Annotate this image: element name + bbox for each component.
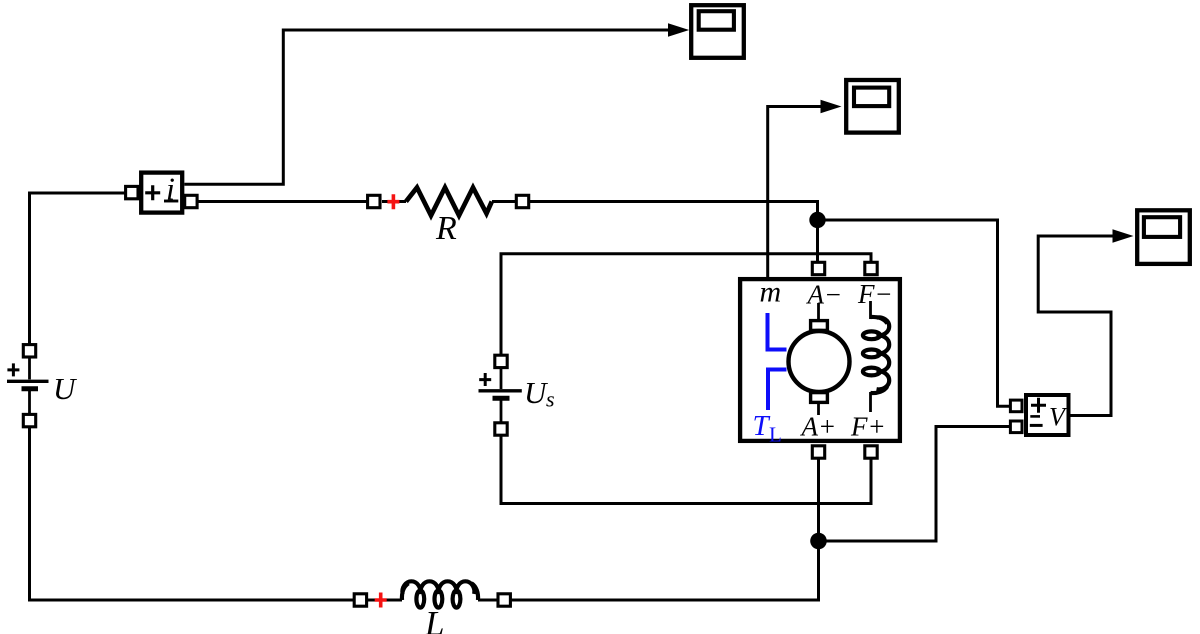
DC motor block <box>740 262 900 458</box>
svg-text:m: m <box>760 276 782 309</box>
blue shaft bracket top <box>768 313 787 350</box>
scope 2 <box>846 80 899 133</box>
arrowhead into scope 3 <box>1113 229 1134 243</box>
armature bottom terminal <box>811 393 828 403</box>
resistor lead wires <box>382 200 517 203</box>
resistor R <box>368 188 529 248</box>
Us top port <box>495 355 507 367</box>
field wire stub bottom <box>869 392 872 412</box>
wire current sensor signal to scope 1 <box>184 30 670 184</box>
wire U top to current sensor <box>30 193 127 352</box>
wire junction B down to inductor <box>510 541 819 600</box>
motor body <box>740 279 900 441</box>
wire U bottom to inductor <box>30 424 367 600</box>
wire Us top to motor F- port <box>501 254 871 356</box>
armature wire stub bottom <box>817 403 820 415</box>
svg-text:R: R <box>435 210 457 247</box>
svg-text:s: s <box>546 387 555 412</box>
armature circle <box>789 331 850 392</box>
inductor L <box>354 581 510 634</box>
voltmeter V <box>1010 395 1068 435</box>
voltmeter minus sign <box>1030 424 1043 427</box>
svg-text:A+: A+ <box>800 412 837 442</box>
current sensor plus sign <box>145 185 160 200</box>
Us long plate <box>479 389 522 392</box>
svg-text:L: L <box>769 423 782 447</box>
U lead wires <box>28 356 31 415</box>
Us short plate <box>493 396 510 401</box>
motor port F- <box>865 262 877 274</box>
U bottom port <box>23 414 35 426</box>
svg-text:T: T <box>753 410 771 442</box>
Us plus sign <box>479 373 491 386</box>
field winding coil <box>863 317 889 393</box>
svg-text:A−: A− <box>806 280 843 310</box>
motor port A- <box>812 262 824 274</box>
U top port <box>23 345 35 357</box>
wire current sensor output to resistor <box>191 200 368 203</box>
arrowhead into scope 2 <box>821 100 842 114</box>
svg-text:F−: F− <box>857 279 893 309</box>
armature top terminal <box>811 321 828 331</box>
U short plate <box>22 386 39 391</box>
armature wire stub top <box>817 303 820 321</box>
red plus resistor <box>387 194 399 209</box>
scope 1 <box>691 5 744 58</box>
voltmeter plus underline <box>1030 415 1040 418</box>
current sensor left port <box>126 186 138 198</box>
blue shaft bracket bottom <box>768 370 787 411</box>
voltmeter plus port <box>1010 400 1022 412</box>
resistor left port <box>368 195 380 207</box>
DC source Us <box>479 355 555 435</box>
voltmeter plus sign <box>1031 398 1046 413</box>
wire voltmeter signal to scope 3 <box>1038 236 1114 416</box>
svg-text:L: L <box>424 604 444 634</box>
scope 3 <box>1137 210 1190 264</box>
inductor coil <box>402 581 478 607</box>
svg-text:U: U <box>53 371 78 406</box>
DC source U <box>7 345 78 427</box>
label i underline <box>164 200 178 203</box>
U long plate <box>7 380 49 383</box>
resistor zigzag <box>406 188 492 216</box>
voltmeter minus port <box>1010 421 1022 433</box>
motor port A+ <box>812 446 824 458</box>
U plus sign <box>7 363 19 376</box>
Us lead wires <box>500 367 503 424</box>
wire junction A to voltmeter plus <box>818 220 1012 406</box>
svg-text:F+: F+ <box>850 412 886 442</box>
arrowhead into scope 1 <box>668 23 689 37</box>
wire motor A+ port to junction B <box>817 453 820 541</box>
junction B <box>810 533 827 550</box>
current sensor body <box>141 173 182 213</box>
red plus inductor <box>375 593 387 608</box>
current sensor U1 <box>126 170 197 212</box>
voltmeter body <box>1026 395 1069 435</box>
wire inductor internal left <box>366 599 402 602</box>
current sensor right port <box>185 195 197 207</box>
field wire stub top <box>869 301 872 319</box>
wire motor m signal to scope 2 <box>768 107 822 278</box>
resistor right port <box>516 195 528 207</box>
Us bottom port <box>495 423 507 435</box>
wire junction B to voltmeter minus <box>819 427 1012 542</box>
wire Us bottom to motor F+ port <box>501 434 871 504</box>
wire inductor internal right <box>478 599 510 602</box>
wire resistor to junction A <box>516 202 818 221</box>
motor port F+ <box>865 446 877 458</box>
inductor left port <box>354 594 366 606</box>
wire junction A down to motor A- port <box>816 220 819 264</box>
inductor right port <box>498 594 510 606</box>
junction A <box>809 212 825 228</box>
